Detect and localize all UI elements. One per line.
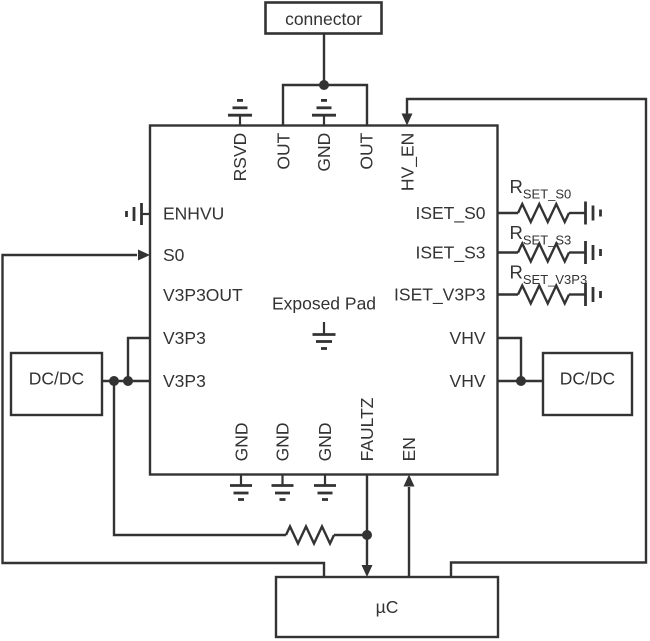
- svg-text:RSET_S0: RSET_S0: [510, 176, 572, 202]
- svg-text:OUT: OUT: [356, 132, 376, 169]
- svg-text:ISET_S3: ISET_S3: [415, 243, 485, 264]
- junction dot VHV node: [516, 376, 526, 386]
- svg-text:GND: GND: [231, 423, 251, 462]
- arrowhead HV_EN into IC: [402, 114, 413, 126]
- svg-text:S0: S0: [163, 245, 185, 265]
- svg-text:RSET_V3P3: RSET_V3P3: [510, 262, 588, 288]
- ground (right) at RSET_S3: [586, 241, 601, 264]
- svg-text:RSET_S3: RSET_S3: [510, 222, 572, 248]
- wire connector to junction: [323, 34, 325, 86]
- resistor RSET_S3: [498, 244, 586, 262]
- wire V3P3 bracket: [128, 338, 150, 381]
- wire resistor to FAULTZ node: [334, 534, 367, 536]
- junction dot V3P3 node A: [109, 376, 119, 386]
- ground (inverted) at GND top: [312, 100, 336, 125]
- wire VHV to DC/DC right: [498, 380, 544, 382]
- ground (right) at RSET_S0: [586, 202, 601, 225]
- svg-text:OUT: OUT: [273, 132, 293, 169]
- junction dot FAULTZ node: [362, 530, 372, 540]
- svg-text:GND: GND: [272, 423, 292, 462]
- svg-text:µC: µC: [376, 597, 399, 617]
- svg-text:FAULTZ: FAULTZ: [357, 397, 377, 461]
- svg-text:HV_EN: HV_EN: [397, 133, 418, 191]
- microcontroller box: [276, 577, 498, 637]
- svg-text:EN: EN: [399, 437, 419, 461]
- svg-text:connector: connector: [285, 9, 362, 29]
- svg-text:RSVD: RSVD: [230, 133, 250, 182]
- resistor RSET_V3P3: [498, 286, 586, 304]
- svg-text:Exposed Pad: Exposed Pad: [272, 294, 376, 314]
- ground (right) at RSET_V3P3: [586, 283, 601, 306]
- svg-text:V3P3: V3P3: [163, 328, 206, 348]
- wire FAULTZ down: [366, 474, 368, 566]
- ground (left) at ENHVU: [127, 203, 151, 225]
- wire VHV bracket: [498, 338, 522, 381]
- arrowhead EN into IC: [404, 475, 415, 487]
- ground (inverted) at RSVD: [228, 100, 252, 125]
- svg-text:V3P3: V3P3: [163, 371, 206, 391]
- svg-text:DC/DC: DC/DC: [560, 369, 615, 389]
- svg-text:ENHVU: ENHVU: [163, 204, 224, 224]
- wire EN up: [408, 487, 410, 577]
- arrowhead FAULTZ into uC: [362, 565, 373, 577]
- ground at exposed pad: [313, 322, 336, 349]
- wire HV_EN loop: [407, 99, 646, 577]
- svg-text:V3P3OUT: V3P3OUT: [163, 285, 243, 305]
- svg-text:VHV: VHV: [450, 328, 486, 348]
- svg-text:ISET_S0: ISET_S0: [415, 203, 485, 224]
- connector box: [266, 3, 382, 34]
- DC/DC right box: [543, 353, 632, 415]
- junction dot V3P3 node B: [123, 376, 133, 386]
- resistor Rfaultz zigzag: [286, 527, 334, 544]
- svg-text:GND: GND: [314, 133, 334, 172]
- svg-text:ISET_V3P3: ISET_V3P3: [394, 285, 485, 306]
- svg-text:GND: GND: [315, 423, 335, 462]
- ground at GND bottom 1: [230, 474, 252, 500]
- IC U1 body: [150, 126, 498, 475]
- ground at GND bottom 2: [272, 474, 294, 500]
- junction dot connector/OUT bracket: [319, 80, 329, 90]
- ground at GND bottom 3: [314, 474, 336, 500]
- resistor RSET_S0: [498, 204, 586, 222]
- wire V3P3 to bottom resistor: [114, 381, 286, 535]
- DC/DC left box: [11, 353, 102, 415]
- wire S0 feedback: [3, 255, 325, 577]
- svg-text:VHV: VHV: [450, 371, 486, 391]
- wire OUT-OUT bracket: [283, 85, 367, 126]
- arrowhead S0 into IC: [138, 250, 150, 261]
- svg-text:DC/DC: DC/DC: [29, 369, 84, 389]
- wire DC/DC left to V3P3: [102, 380, 150, 382]
